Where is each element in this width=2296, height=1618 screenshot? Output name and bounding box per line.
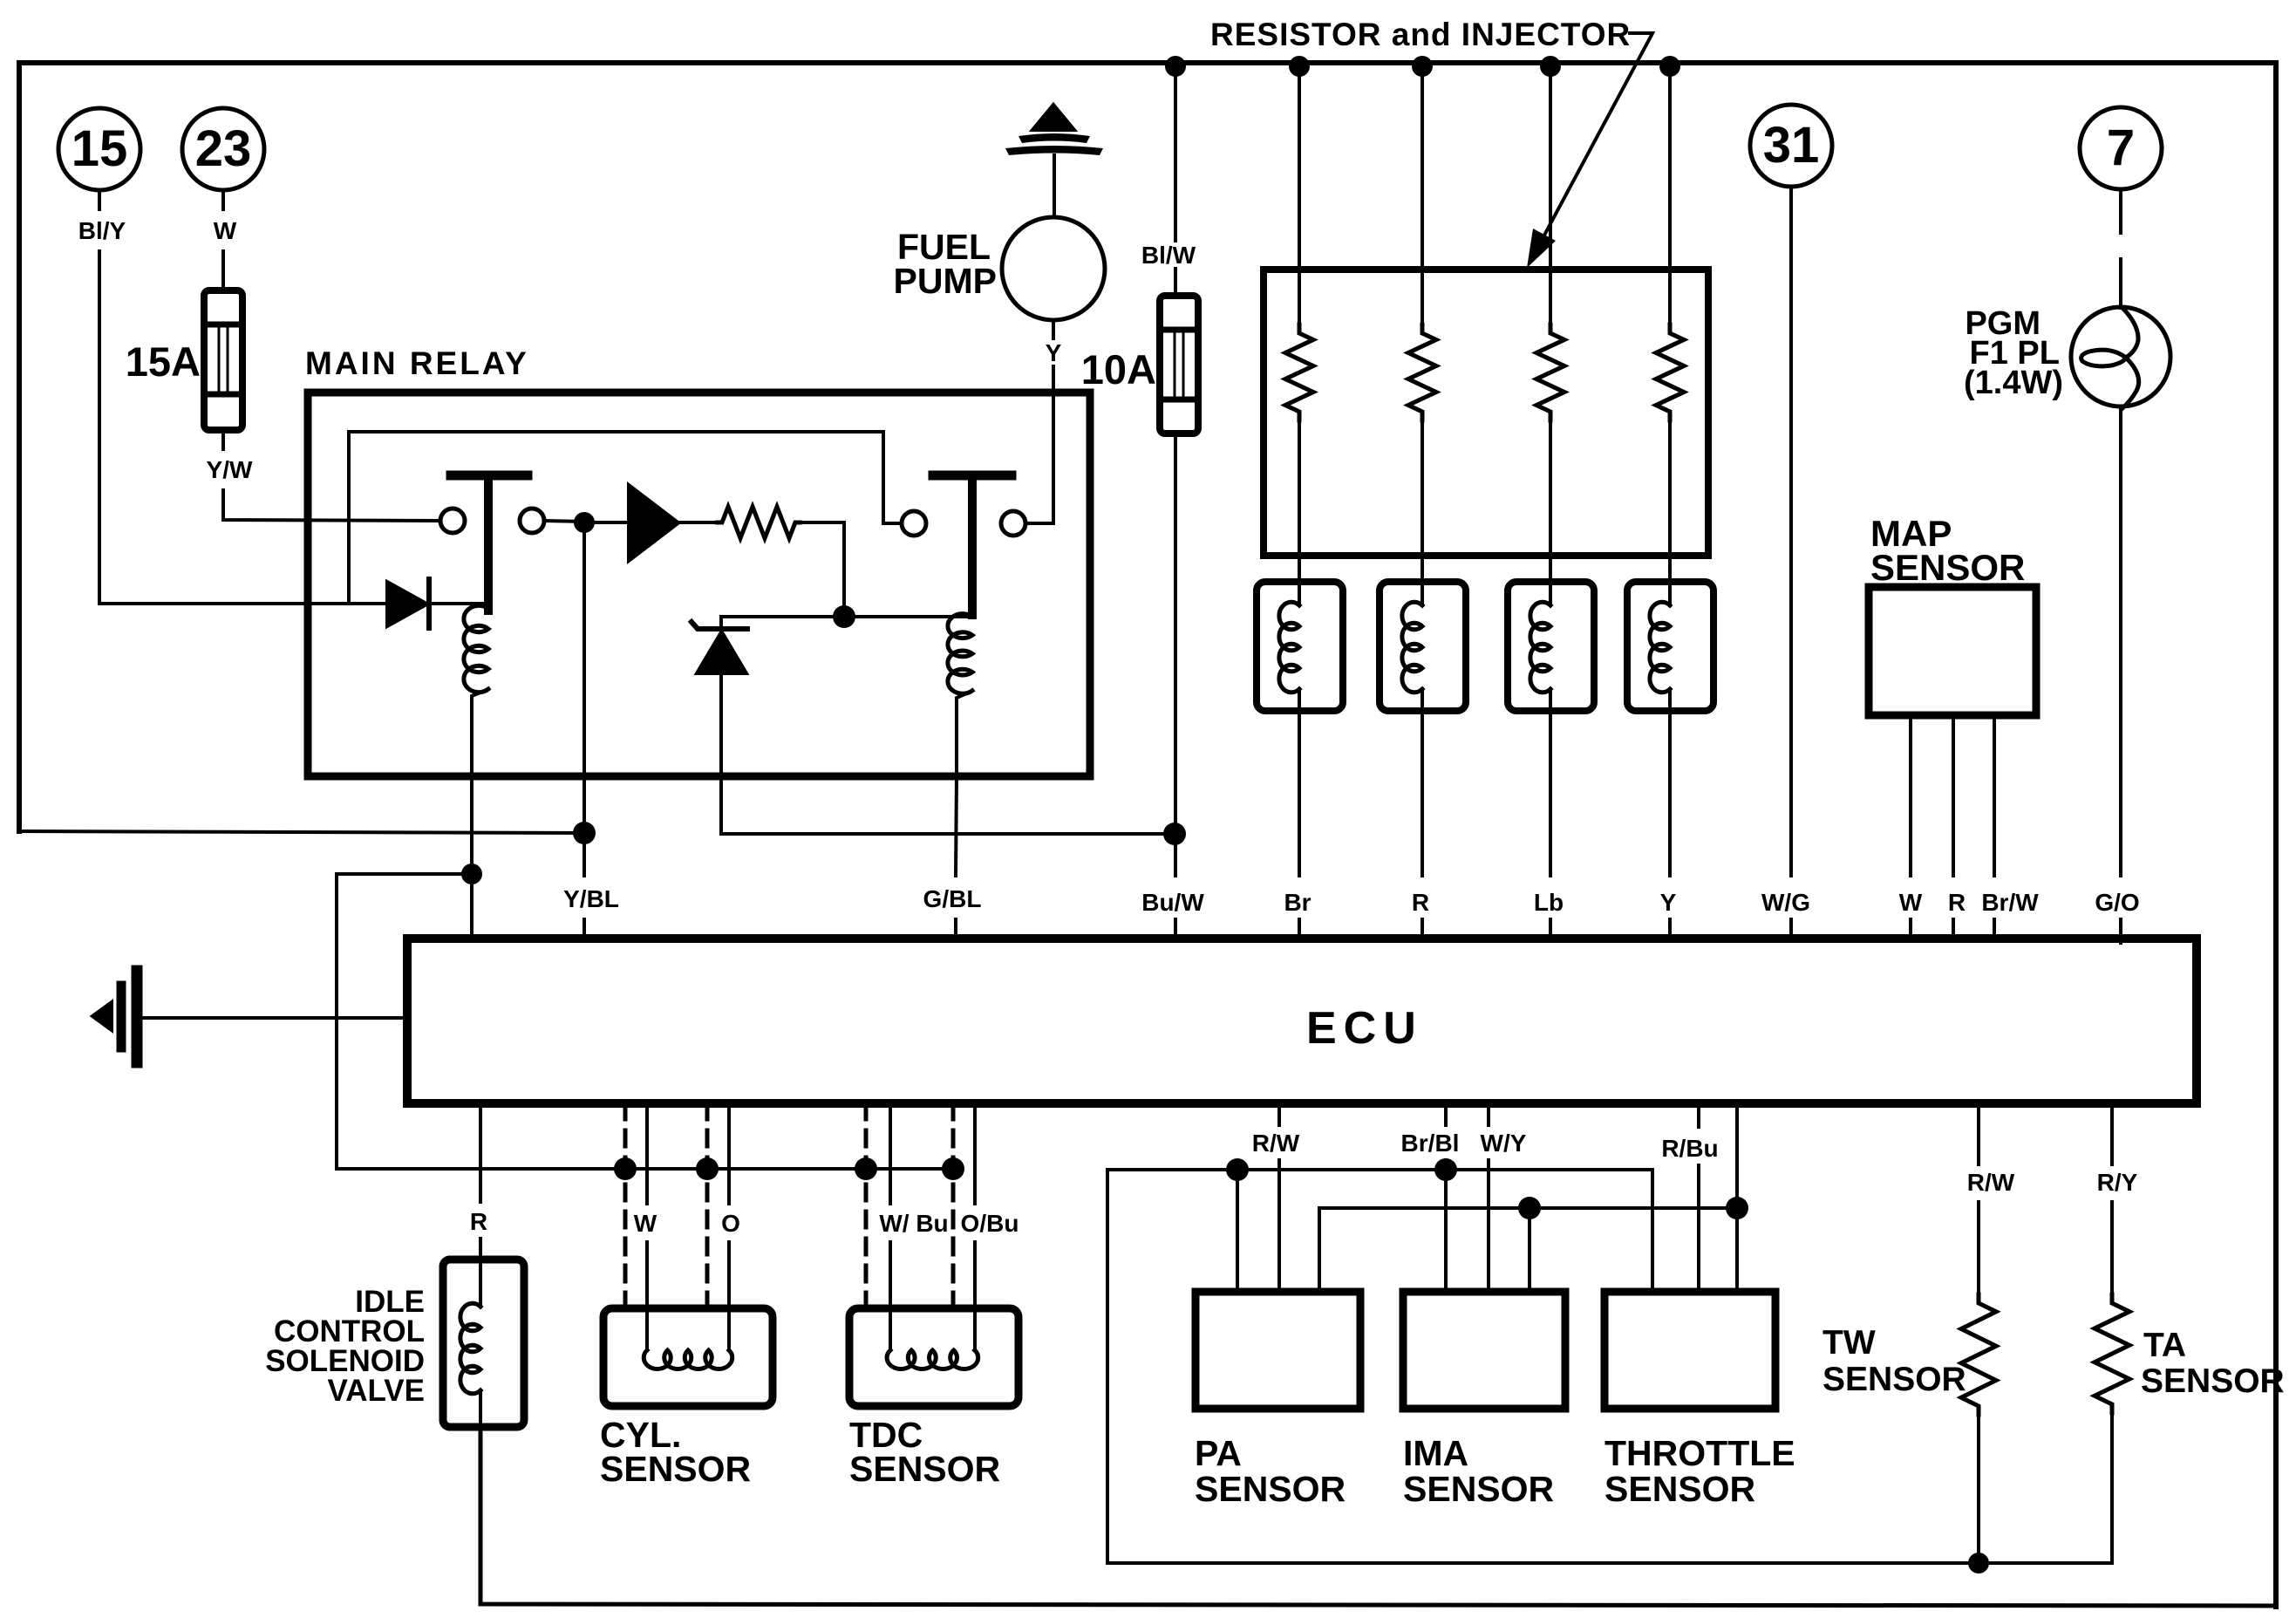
injector 1 coil — [1298, 582, 1301, 605]
resistor (injector 4) — [1656, 324, 1684, 420]
svg-text:R/Y: R/Y — [2097, 1169, 2138, 1196]
TDC sensor box — [849, 1308, 1019, 1406]
wire: resistor to injector coil 3 — [1549, 420, 1552, 582]
wire: lower junction bus — [337, 1167, 953, 1171]
junction: TW / ground bus — [1968, 1553, 1989, 1574]
wire: bus2 to IMA sensor — [1528, 1208, 1531, 1292]
svg-text:31: 31 — [1763, 117, 1820, 174]
svg-text:Y: Y — [1660, 889, 1677, 916]
wire: contact B to node — [544, 521, 584, 522]
svg-text:O/Bu: O/Bu — [961, 1210, 1019, 1237]
CYL sensor pickup coil — [645, 1308, 649, 1350]
wire R/W: ECU to TW sensor — [1977, 1103, 1980, 1164]
svg-text:R/W: R/W — [1252, 1130, 1300, 1157]
terminal 7 — [2080, 107, 2162, 189]
wire: relay internal link to contact C — [349, 432, 901, 604]
wire: border right edge — [2273, 63, 2279, 1607]
svg-text:R: R — [1948, 889, 1966, 916]
svg-text:SENSOR: SENSOR — [849, 1449, 1000, 1489]
junction: top bus / injector 1 — [1289, 56, 1310, 77]
wire G/BL: relay coil L2 to ECU — [956, 776, 957, 876]
svg-text:RESISTOR and INJECTOR: RESISTOR and INJECTOR — [1210, 17, 1631, 52]
junction: bus / CYL shield — [614, 1157, 637, 1180]
fuse F2 10A — [1160, 296, 1198, 434]
svg-text:ECU: ECU — [1306, 1003, 1423, 1054]
svg-text:W: W — [214, 217, 237, 244]
svg-text:Bu/W: Bu/W — [1141, 889, 1204, 916]
wire: ground to fuel pump — [1053, 155, 1056, 217]
wire R: MAP sensor to ECU — [1952, 715, 1955, 876]
wire (shield) to TDC sensor — [864, 1103, 869, 1308]
svg-text:Bl/W: Bl/W — [1141, 242, 1196, 269]
wire: resistor to injector coil 2 — [1421, 420, 1424, 582]
injector 3 coil — [1549, 582, 1552, 605]
idle control solenoid valve box — [443, 1260, 524, 1427]
wire R/W: ECU to PA sensor — [1277, 1103, 1281, 1125]
svg-text:SENSOR: SENSOR — [1604, 1469, 1755, 1509]
junction: top bus / injector 3 — [1540, 56, 1561, 77]
svg-text:R/W: R/W — [1967, 1169, 2015, 1196]
resistor (injector 3) — [1536, 324, 1564, 420]
junction: bus1 / Br/Bl — [1434, 1158, 1457, 1181]
wire: zener down and right to Bu/W node — [721, 673, 1175, 834]
svg-text:7: 7 — [2107, 119, 2135, 176]
wire O/Bu: ECU to TDC sensor — [973, 1103, 977, 1204]
wire R: relay coil L1 to ECU — [470, 776, 474, 939]
junction: bus1 / PA — [1226, 1158, 1249, 1181]
wire: sensor ground loop (left+bottom) — [1107, 1170, 2110, 1563]
leader arrow to resistor box — [1541, 33, 1652, 242]
wire Br/W: MAP sensor to ECU — [1993, 715, 1996, 876]
junction: on Bu/W wire — [1163, 823, 1186, 845]
wire Lb: injector 3 to ECU — [1549, 711, 1552, 876]
wire Y: pump to relay contact D — [1052, 320, 1055, 338]
injector 2 coil — [1421, 582, 1424, 605]
wire: node 2 to zener — [721, 615, 844, 618]
wire Y: injector 4 to ECU — [1668, 711, 1672, 876]
svg-text:TW: TW — [1822, 1324, 1876, 1362]
svg-text:SENSOR: SENSOR — [1195, 1469, 1346, 1509]
wire: TA sensor to ground bus — [2110, 1413, 2114, 1563]
wire R/Bu: ECU to throttle sensor — [1697, 1103, 1700, 1127]
svg-text:Br/W: Br/W — [1981, 889, 2039, 916]
junction: bus2 / throttle — [1726, 1197, 1748, 1219]
svg-text:Y/BL: Y/BL — [563, 885, 619, 912]
wire Bu/W: fuse to ECU — [1174, 434, 1177, 876]
TDC sensor pickup coil — [889, 1308, 892, 1350]
wire: bus to resistor 2 — [1421, 66, 1424, 324]
injector 1 box — [1257, 582, 1343, 711]
contact circle B — [520, 509, 544, 533]
wire: loop to lower junction bus — [337, 874, 472, 1169]
wire R: ECU to idle control solenoid valve — [479, 1103, 482, 1202]
junction: top bus / injector 4 — [1659, 56, 1680, 77]
resistor (injector 2) — [1408, 324, 1436, 420]
svg-text:R: R — [1412, 889, 1429, 916]
relay armature left (switch SW1) — [451, 471, 528, 481]
svg-text:MAIN RELAY: MAIN RELAY — [305, 345, 529, 381]
main relay box — [308, 393, 1090, 776]
contact circle C — [902, 511, 926, 536]
wire W/Y: ECU to IMA sensor — [1487, 1103, 1490, 1125]
MAP sensor box — [1869, 587, 2036, 715]
wire: bus to resistor 4 — [1668, 66, 1672, 324]
junction: bus / TDC shield 2 — [942, 1157, 964, 1180]
svg-text:G/O: G/O — [2095, 889, 2139, 916]
svg-text:G/BL: G/BL — [923, 885, 982, 912]
resistor (injector 1) — [1285, 324, 1313, 420]
wire: bottom return (idle valve to border) — [480, 1427, 2276, 1606]
wire: TW sensor to ground bus — [1977, 1415, 1980, 1563]
relay coil L2 — [948, 614, 972, 694]
wire: bus1 to PA sensor — [1236, 1170, 1239, 1292]
svg-text:PUMP: PUMP — [894, 261, 997, 301]
diode D1 (left, pointing right) — [387, 582, 427, 626]
wire R/Y: ECU to TA sensor — [2110, 1103, 2114, 1164]
svg-text:PA: PA — [1195, 1433, 1242, 1473]
junction: bus2 / IMA — [1518, 1197, 1541, 1219]
wire G/O: lamp to ECU — [2119, 406, 2122, 876]
wire (shield 2) to TDC sensor — [951, 1103, 956, 1308]
wire: border left edge — [17, 63, 22, 831]
wire: sensor bus 2 — [1319, 1208, 1737, 1292]
svg-text:SENSOR: SENSOR — [1403, 1469, 1554, 1509]
wire: ground to ECU — [141, 1016, 407, 1020]
svg-text:15A: 15A — [126, 338, 201, 385]
svg-text:W/Y: W/Y — [1481, 1130, 1527, 1157]
wire (shield) to CYL sensor — [623, 1103, 628, 1308]
svg-text:R/Bu: R/Bu — [1661, 1135, 1718, 1162]
junction: Y/BL / left border wire — [573, 822, 596, 844]
wire: node down to Y/BL — [583, 522, 586, 776]
svg-text:Br: Br — [1284, 889, 1311, 916]
wire Bl/W — [1174, 66, 1177, 241]
svg-text:IMA: IMA — [1403, 1433, 1468, 1473]
wire W: ECU to CYL sensor — [645, 1103, 649, 1204]
wire O: ECU to CYL sensor — [727, 1103, 731, 1204]
PA sensor box — [1196, 1292, 1360, 1409]
svg-text:Br/Bl: Br/Bl — [1401, 1130, 1460, 1157]
svg-text:THROTTLE: THROTTLE — [1604, 1433, 1795, 1473]
wire (shield 2) to CYL sensor — [705, 1103, 710, 1308]
terminal 23 — [182, 108, 264, 190]
injector 4 coil — [1668, 582, 1672, 605]
svg-text:Lb: Lb — [1534, 889, 1564, 916]
junction: R wire / loop — [461, 864, 482, 884]
svg-text:VALVE: VALVE — [328, 1374, 426, 1408]
svg-text:(1.4W): (1.4W) — [1964, 365, 2063, 401]
wire Bl/Y from terminal 15 — [98, 190, 101, 209]
idle control solenoid coil — [479, 1260, 482, 1307]
svg-text:W: W — [1899, 889, 1923, 916]
relay armature right (switch SW2) — [933, 471, 1012, 481]
injector 2 box — [1380, 582, 1466, 711]
svg-text:10A: 10A — [1081, 346, 1156, 393]
svg-text:O: O — [721, 1210, 740, 1237]
CYL sensor box — [603, 1308, 773, 1406]
svg-text:W/ Bu: W/ Bu — [879, 1210, 948, 1237]
wire: top supply bus (border top) — [19, 60, 2276, 65]
svg-text:Bl/Y: Bl/Y — [78, 217, 126, 244]
ECU box — [407, 939, 2197, 1103]
IMA sensor box — [1403, 1292, 1565, 1409]
junction: top bus / 10A fuse — [1165, 56, 1186, 77]
junction: bus / CYL shield 2 — [696, 1157, 719, 1180]
wire W from terminal 23 — [221, 190, 225, 209]
wire: left edge to Y/BL node — [19, 831, 584, 833]
wire: resistor to injector coil 1 — [1298, 420, 1301, 582]
wire R: injector 2 to ECU — [1421, 711, 1424, 876]
relay coil L1 — [464, 605, 488, 692]
wire: contact D to fuel pump feed — [1025, 393, 1053, 523]
terminal 31 — [1750, 105, 1832, 187]
wire W: MAP sensor to ECU — [1909, 715, 1912, 876]
TA sensor thermistor — [2095, 1294, 2129, 1413]
wire: resistor to injector coil 4 — [1668, 420, 1672, 582]
wire Br: injector 1 to ECU — [1298, 711, 1301, 876]
wire: resistor to node 2 — [800, 522, 844, 617]
junction: relay node (Y/BL) — [574, 512, 595, 533]
ground symbol (fuel pump) — [1032, 105, 1074, 130]
wire W/G: terminal 31 to ECU — [1789, 187, 1793, 876]
svg-text:W/G: W/G — [1761, 889, 1810, 916]
injector 3 box — [1508, 582, 1594, 711]
wire: bus to resistor 1 — [1298, 66, 1301, 324]
svg-text:SENSOR: SENSOR — [600, 1449, 751, 1489]
svg-text:15: 15 — [72, 120, 128, 177]
zener diode D2 (pointing up) — [719, 617, 723, 630]
wire: bus to resistor 3 — [1549, 66, 1552, 324]
svg-text:W: W — [634, 1210, 657, 1237]
wire: ECU to throttle sensor (right) — [1735, 1103, 1739, 1292]
svg-text:SENSOR: SENSOR — [1822, 1361, 1966, 1398]
lamp PGM F1 PL (1.4W) — [2071, 307, 2170, 406]
wire Br/Bl: ECU to IMA sensor — [1444, 1103, 1448, 1125]
svg-text:SENSOR: SENSOR — [1870, 547, 2025, 588]
arrow (diode symbol) in relay — [629, 485, 678, 561]
contact circle D — [1001, 511, 1025, 536]
fuel pump motor — [1002, 217, 1105, 320]
wire: node 2 to relay coil L2 — [844, 615, 971, 618]
TW sensor thermistor — [1961, 1294, 1996, 1415]
injector 4 box — [1627, 582, 1713, 711]
wire W/Bu: ECU to TDC sensor — [889, 1103, 892, 1204]
svg-text:TA: TA — [2143, 1327, 2186, 1364]
junction: bus / TDC shield — [855, 1157, 877, 1180]
throttle sensor box — [1604, 1292, 1775, 1409]
resistor R1 in relay — [678, 521, 718, 524]
resistor and injector box — [1264, 270, 1708, 556]
svg-text:Y: Y — [1046, 339, 1062, 366]
ground symbol (ECU) — [132, 971, 143, 1062]
fuse F1 15A — [204, 290, 242, 430]
terminal 15 — [58, 108, 140, 190]
svg-text:SENSOR: SENSOR — [2141, 1362, 2285, 1400]
svg-text:23: 23 — [195, 120, 252, 177]
contact circle A (from fuse) — [440, 509, 465, 533]
junction: node 2 — [833, 605, 855, 628]
svg-text:Y/W: Y/W — [207, 456, 253, 483]
junction: top bus / injector 2 — [1412, 56, 1433, 77]
wire Y/W from fuse to relay contact — [221, 430, 225, 449]
wire: terminal 7 to lamp — [2119, 189, 2122, 233]
wire Y/BL: relay node to ECU — [583, 776, 586, 876]
wire: sensor bus 1 — [1107, 1170, 1652, 1292]
svg-text:R: R — [470, 1208, 487, 1235]
